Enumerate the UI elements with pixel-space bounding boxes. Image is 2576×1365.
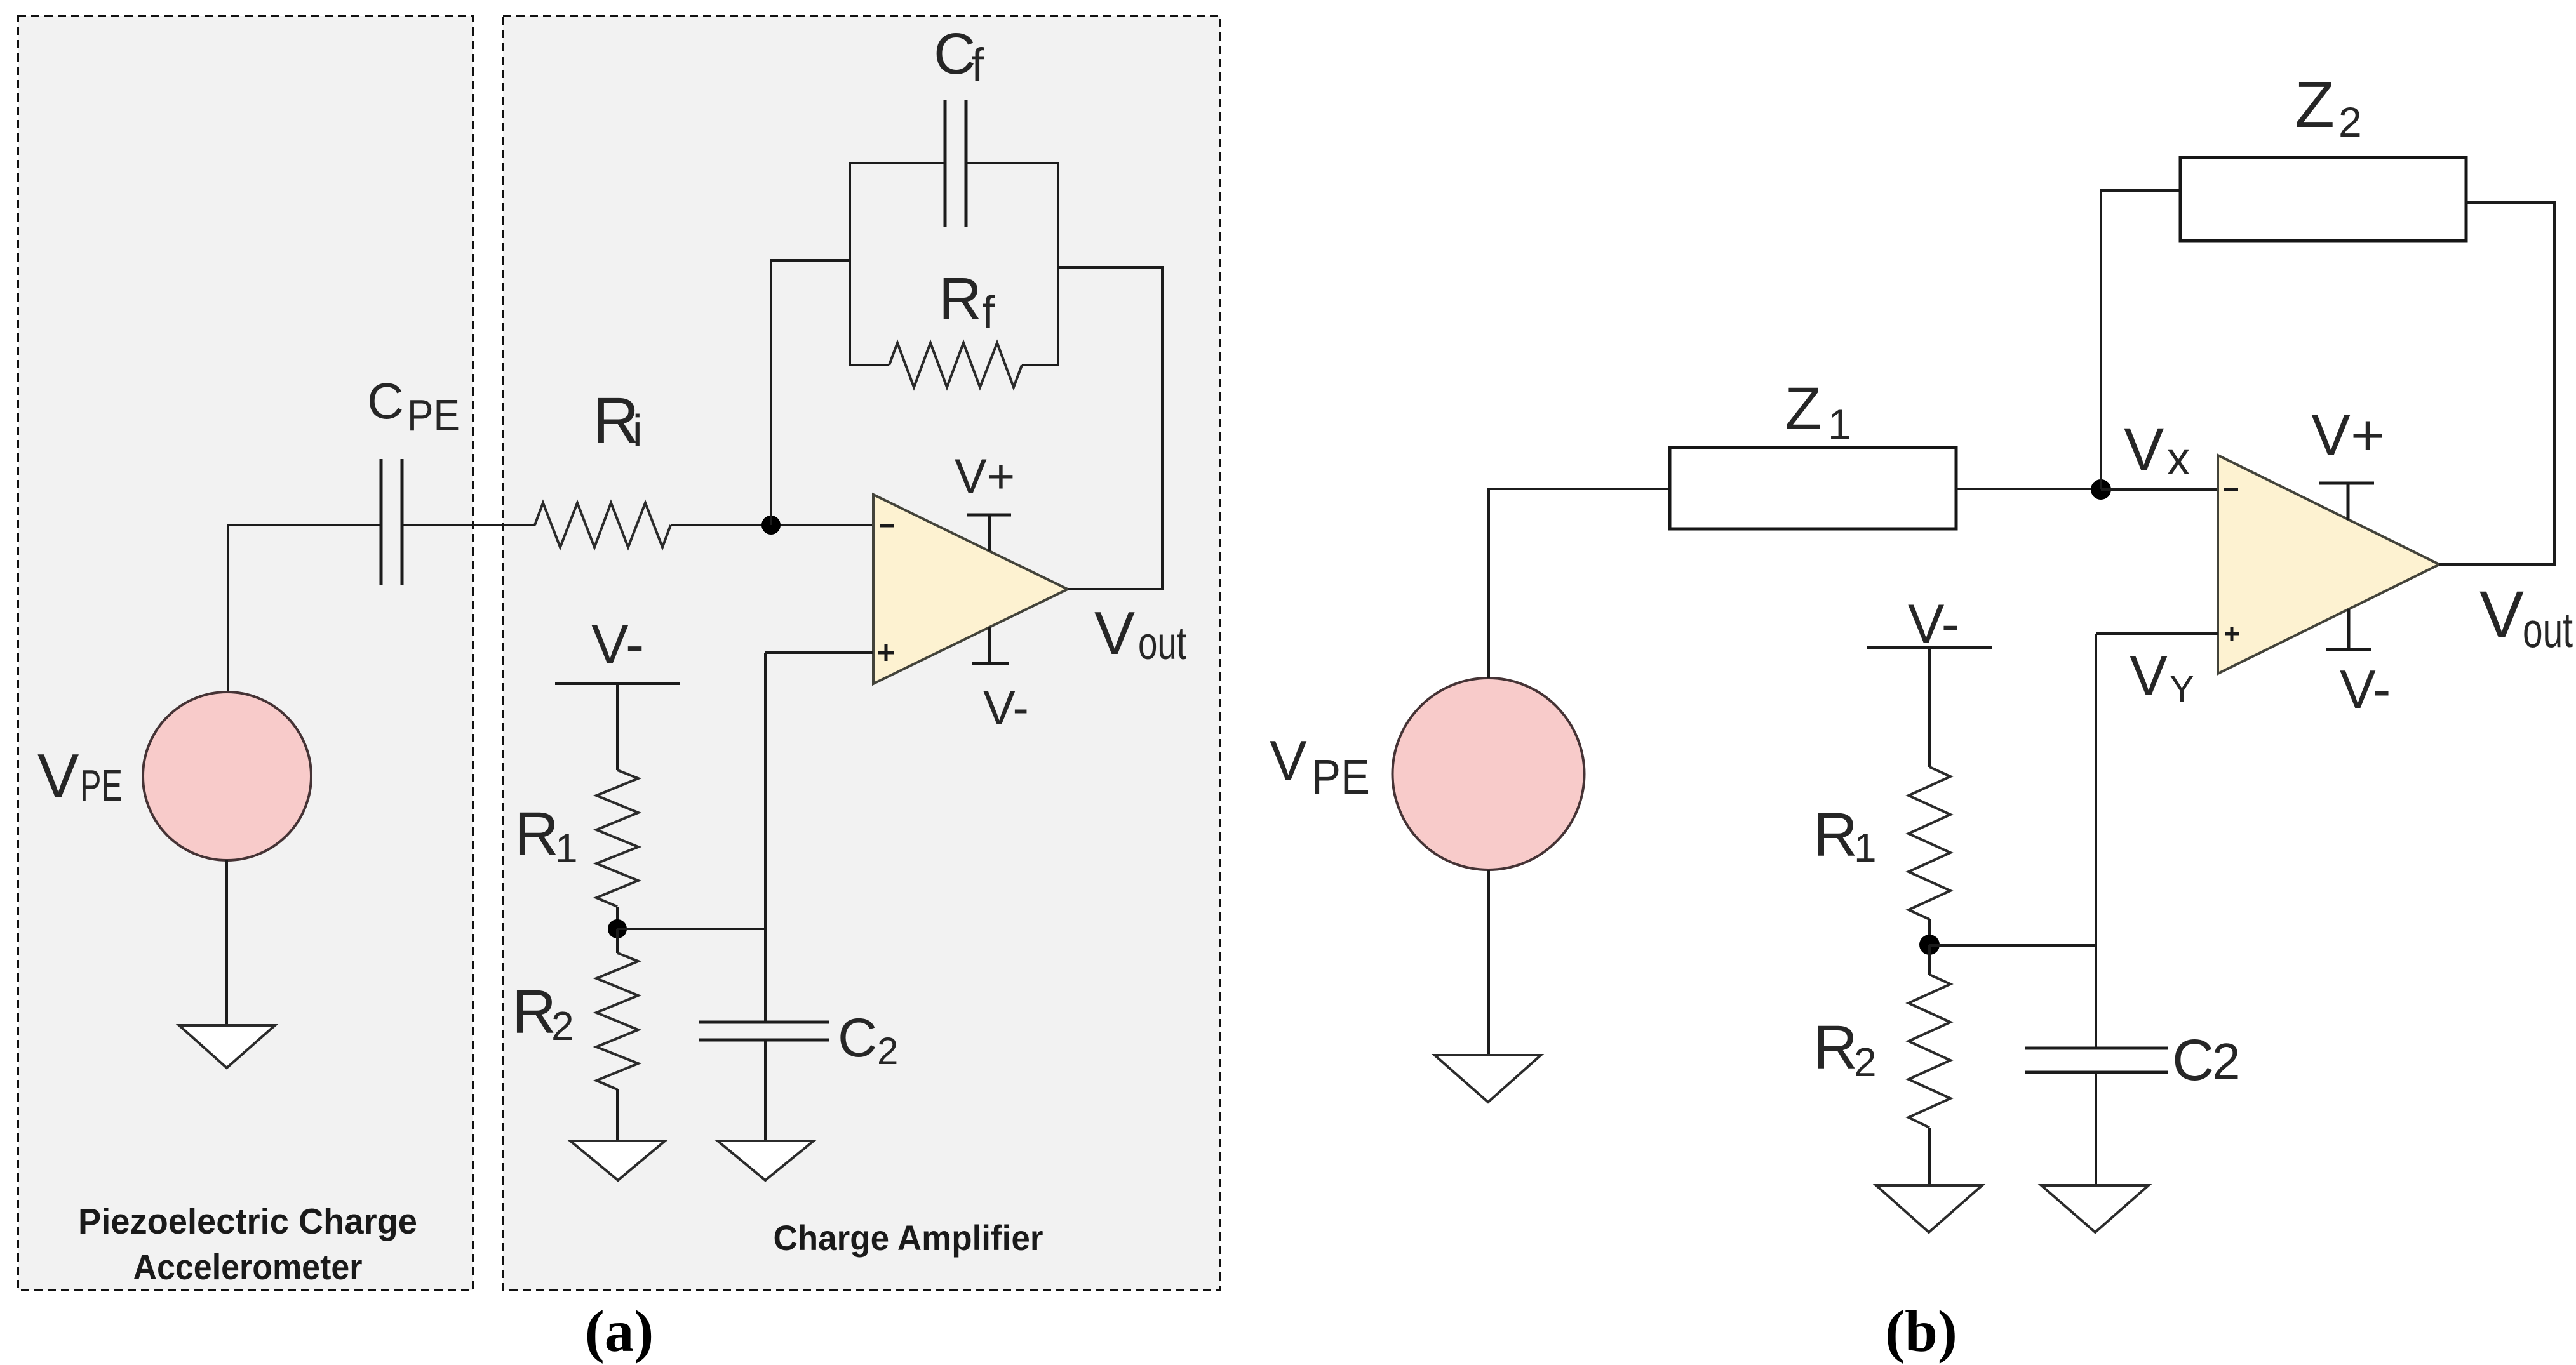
svg-text:1: 1 — [555, 825, 578, 871]
svg-text:V-: V- — [2340, 660, 2391, 720]
U1 inverting pin mark — [880, 524, 894, 528]
node: inverting input junction — [761, 516, 781, 535]
label Rf — [939, 265, 995, 338]
feedback loop right edge — [1057, 163, 1059, 365]
svg-text:Accelerometer: Accelerometer — [133, 1247, 363, 1288]
capacitor CPE — [381, 459, 402, 585]
svg-text:PE: PE — [1311, 750, 1370, 804]
box label: Piezoelectric Charge Accelerometer — [78, 1201, 417, 1288]
U1 non-inverting pin mark — [878, 644, 894, 661]
svg-text:V: V — [2479, 578, 2524, 652]
label Z1 — [1785, 375, 1851, 448]
wire: node to R2 — [616, 929, 619, 953]
wire: Z2 right — [2466, 201, 2554, 204]
wire: R2 to ground — [616, 1089, 619, 1141]
svg-text:Y: Y — [2170, 669, 2194, 710]
label Z2 — [2295, 68, 2362, 145]
wire: VPE (b) bottom to ground — [1487, 870, 1490, 1055]
wire: C2 to ground (b) — [2095, 1072, 2097, 1185]
label CPE — [367, 373, 460, 440]
feedback loop bottom edge segments — [849, 364, 1059, 366]
label Vout (a) — [1094, 599, 1186, 669]
svg-text:C: C — [934, 22, 976, 86]
V- rail bar (a) — [555, 682, 680, 685]
node Vx — [2091, 479, 2111, 500]
wire: CPE to Ri — [402, 524, 535, 526]
svg-text:2: 2 — [877, 1030, 898, 1072]
ground (a) below VPE — [179, 1025, 275, 1068]
wire: VPE vertical riser — [227, 524, 229, 692]
svg-text:1: 1 — [1854, 825, 1877, 870]
wire: output riser (b) — [2553, 201, 2556, 566]
svg-text:C: C — [838, 1008, 877, 1069]
wire: op-amp output — [1068, 588, 1162, 590]
svg-text:R: R — [1813, 800, 1858, 869]
svg-text:V-: V- — [591, 613, 644, 676]
label Vy — [2130, 644, 2194, 710]
label Cf — [934, 22, 984, 91]
label VPE (a) — [37, 741, 123, 811]
label VPE (b) — [1270, 729, 1370, 804]
wire: V- bar to R1 — [616, 684, 619, 770]
label R1 (b) — [1813, 800, 1877, 870]
svg-text:1: 1 — [1828, 401, 1851, 448]
ground (b) below R2 — [1876, 1185, 1982, 1232]
svg-text:V: V — [1094, 599, 1135, 667]
label C2 (a) — [838, 1008, 898, 1072]
node: R1/R2 divider (a) — [608, 919, 627, 938]
svg-text:f: f — [971, 39, 984, 91]
wire: divider node to non-inverting riser — [617, 928, 765, 930]
svg-text:R: R — [514, 799, 559, 869]
svg-text:PE: PE — [407, 390, 460, 440]
label R1 (a) — [514, 799, 578, 871]
wire: Z1 to node Vx — [1956, 488, 2101, 490]
wire: R1 to node — [616, 907, 619, 929]
svg-text:x: x — [2167, 434, 2190, 484]
resistor R2 (b) — [1909, 975, 1950, 1128]
dashed enclosure: Piezoelectric Charge Accelerometer — [18, 16, 473, 1290]
svg-text:Charge Amplifier: Charge Amplifier — [774, 1218, 1043, 1258]
U2 inverting pin mark — [2224, 488, 2238, 491]
svg-text:(b): (b) — [1885, 1299, 1957, 1364]
V+ supply bar (a) — [967, 515, 1011, 551]
svg-text:V-: V- — [983, 681, 1029, 735]
wire: node Vx up — [2100, 190, 2102, 489]
label R2 (b) — [1813, 1013, 1877, 1085]
impedance Z2 — [2180, 157, 2466, 241]
wire: node to R2 (b) — [1928, 945, 1931, 975]
wire: op-amp (b) output — [2439, 563, 2554, 566]
wire: R2 to ground (b) — [1928, 1128, 1931, 1185]
svg-text:2: 2 — [1854, 1039, 1877, 1085]
svg-text:V: V — [2124, 416, 2164, 483]
wire: VPE (b) riser — [1487, 488, 1490, 678]
feedback loop left edge — [849, 163, 851, 365]
voltage source VPE (a) — [143, 692, 311, 860]
svg-text:Z: Z — [2295, 68, 2335, 141]
svg-text:2: 2 — [2212, 1033, 2241, 1089]
svg-text:PE: PE — [80, 761, 123, 810]
voltage source VPE (b) — [1393, 678, 1585, 870]
op-amp U1 (a) — [873, 495, 1068, 684]
svg-text:2: 2 — [2338, 98, 2362, 145]
wire: feedback left horizontal — [770, 259, 850, 262]
V- supply bar (a) — [972, 627, 1009, 663]
resistor R2 (a) — [596, 953, 638, 1089]
feedback loop top edge (split by Cf) — [849, 162, 1059, 164]
impedance Z1 — [1670, 448, 1956, 529]
svg-text:f: f — [982, 288, 995, 338]
wire: non-inverting input (b) — [2096, 632, 2218, 635]
wire: Ri to inverting input — [671, 524, 873, 526]
V- rail bar (b) — [1867, 646, 1992, 649]
wire: node up to feedback — [770, 260, 772, 525]
svg-text:V-: V- — [1908, 594, 1959, 655]
capacitor C2 (a) — [699, 1022, 829, 1040]
ground (b) below VPE — [1435, 1055, 1541, 1102]
svg-text:V+: V+ — [955, 449, 1015, 503]
label Vout (b) — [2479, 578, 2573, 658]
wire: VPE bottom to ground — [225, 860, 228, 1025]
ground (b) below C2 — [2041, 1185, 2149, 1232]
svg-text:C: C — [367, 373, 404, 429]
wire: V- bar to R1 (b) — [1928, 648, 1931, 767]
wire: feedback right to output riser — [1058, 266, 1162, 269]
resistor R1 (a) — [596, 770, 638, 907]
op-amp U2 (b) — [2218, 455, 2439, 674]
wire: node Vx to inverting input (b) — [2101, 488, 2218, 491]
resistor Ri — [535, 503, 671, 547]
resistor R1 (b) — [1909, 767, 1950, 919]
svg-text:2: 2 — [551, 1003, 574, 1049]
svg-text:R: R — [512, 977, 556, 1046]
wire: R1 to node (b) — [1928, 919, 1931, 945]
V+ supply bar (b) — [2319, 483, 2374, 520]
capacitor Cf — [945, 100, 966, 227]
wire: VPE top to CPE left plate — [228, 524, 381, 526]
wire: divider node to riser (b) — [1929, 944, 2096, 947]
label Vx — [2124, 416, 2190, 484]
label R2 (a) — [512, 977, 574, 1049]
svg-text:V+: V+ — [2311, 402, 2385, 468]
U2 non-inverting pin mark — [2225, 627, 2239, 641]
dashed enclosure: Charge Amplifier — [503, 16, 1220, 1290]
capacitor C2 (b) — [2025, 1048, 2168, 1072]
V- supply bar (b) — [2326, 609, 2371, 649]
svg-text:out: out — [1138, 618, 1186, 669]
svg-text:C: C — [2172, 1028, 2214, 1093]
svg-text:V: V — [1270, 729, 1307, 792]
svg-text:R: R — [1813, 1013, 1858, 1082]
svg-text:Piezoelectric Charge: Piezoelectric Charge — [78, 1201, 417, 1242]
wire: non-inverting riser down to C2 — [764, 653, 767, 1022]
wire: up to Z2 left — [2100, 189, 2180, 192]
resistor Rf — [889, 343, 1022, 387]
svg-text:Z: Z — [1785, 375, 1821, 443]
svg-text:V: V — [2130, 644, 2168, 708]
ground (a) below C2 — [718, 1141, 814, 1180]
svg-text:R: R — [939, 265, 982, 332]
label Ri — [593, 384, 643, 456]
ground (a) below R2 — [570, 1141, 665, 1180]
wire: non-inverting riser (b) — [2095, 634, 2097, 1048]
svg-text:V: V — [37, 741, 79, 811]
wire: output riser — [1161, 266, 1164, 590]
wire: C2 to ground — [764, 1040, 767, 1141]
svg-text:i: i — [633, 406, 643, 455]
wire: non-inverting input — [765, 651, 873, 654]
wire: VPE (b) to Z1 — [1487, 488, 1670, 490]
svg-text:(a): (a) — [585, 1299, 654, 1364]
label C2 (b) — [2172, 1028, 2241, 1093]
node: R1/R2 divider (b) — [1919, 935, 1940, 955]
svg-text:out: out — [2523, 602, 2573, 658]
